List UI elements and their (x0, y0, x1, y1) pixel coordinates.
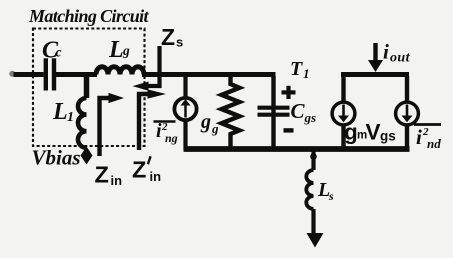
inductor L_1 (84, 76, 90, 98)
label i2_ng with overline (154, 120, 176, 123)
svg-text:in: in (111, 173, 123, 188)
current source i_nd (405, 76, 409, 103)
svg-text:i: i (383, 40, 389, 64)
svg-text:out: out (390, 51, 411, 66)
capacitor C_c (44, 58, 48, 90)
svg-text:g: g (211, 121, 219, 136)
wire top rail (142, 72, 276, 77)
ground arrow (307, 233, 324, 248)
Z'_in arrow (139, 94, 148, 150)
current source g_m V_gs (341, 76, 345, 103)
svg-text:Matching Circuit: Matching Circuit (28, 6, 150, 26)
label + (282, 90, 296, 94)
svg-text:1: 1 (67, 110, 74, 125)
svg-text:g: g (122, 43, 130, 58)
svg-text:1: 1 (303, 66, 310, 81)
svg-text:ng: ng (165, 131, 178, 145)
wire bottom rail (184, 146, 410, 152)
Vbias terminal diamond (81, 147, 93, 165)
svg-text:nd: nd (427, 136, 441, 151)
inductor L_s (311, 151, 315, 170)
current source i_ng (183, 76, 187, 98)
wire C_c to L_g (56, 72, 98, 77)
svg-text:Vbias: Vbias (32, 146, 81, 170)
svg-text:c: c (56, 45, 62, 60)
i_out arrow (373, 43, 377, 61)
svg-text:Z: Z (161, 24, 175, 50)
matching circuit dashed box (33, 29, 145, 147)
label - (284, 128, 294, 132)
svg-text:T: T (290, 58, 303, 80)
svg-text:gs: gs (380, 129, 396, 144)
svg-text:L: L (108, 37, 124, 63)
svg-text:s: s (176, 35, 183, 50)
input terminal dot (9, 71, 15, 77)
resistor g_g (222, 76, 240, 150)
svg-text:Z: Z (132, 157, 146, 183)
capacitor C_gs (271, 76, 275, 150)
svg-text:Z: Z (95, 162, 109, 188)
Z_s arrow (148, 46, 160, 86)
svg-text:V: V (366, 120, 381, 145)
svg-text:L: L (52, 99, 68, 125)
svg-text:in: in (150, 169, 162, 184)
svg-text:s: s (328, 189, 334, 203)
inductor L_g (96, 67, 144, 75)
svg-text:gs: gs (304, 110, 317, 125)
Z_in arrow (100, 98, 110, 156)
svg-text:i: i (416, 125, 422, 149)
wire input to C_c (14, 72, 44, 77)
svg-text:g: g (344, 120, 358, 145)
svg-text:g: g (200, 111, 211, 133)
svg-text:C: C (291, 99, 306, 123)
label i2_nd with overline (414, 123, 441, 126)
wire top rail right (341, 72, 409, 77)
